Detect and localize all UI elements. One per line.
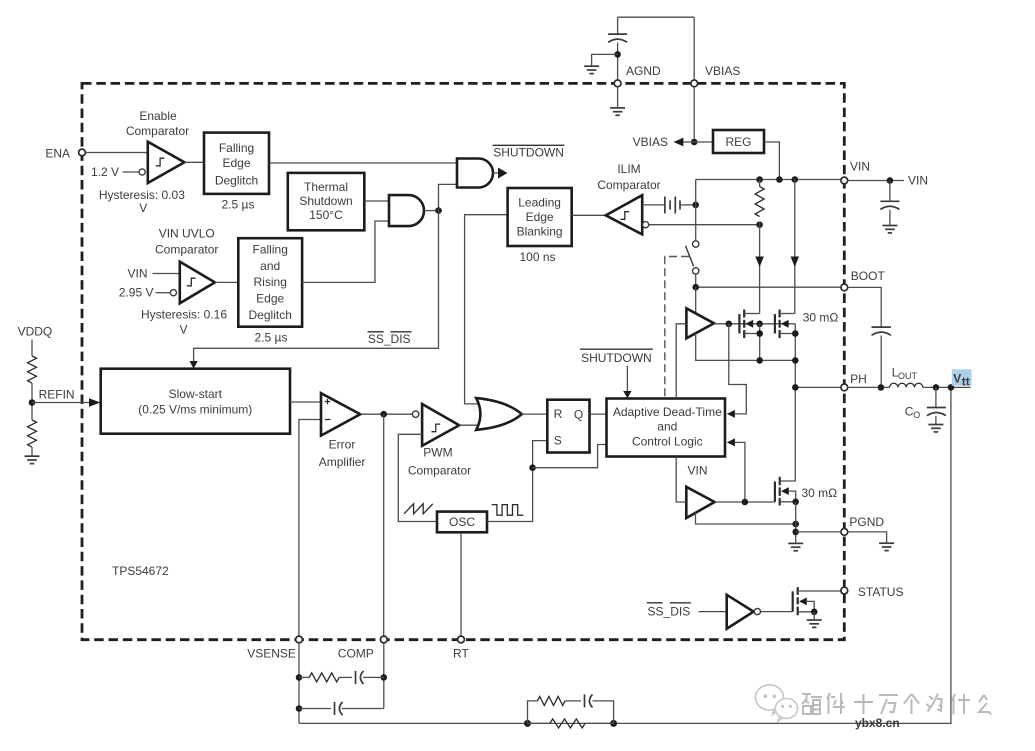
svg-text:Amplifier: Amplifier xyxy=(319,455,366,469)
ground (input cap) xyxy=(882,226,897,233)
high-side gate line xyxy=(714,321,795,328)
PGND wire xyxy=(796,531,841,533)
net label SHUTDOWN (dead-time) xyxy=(580,349,653,365)
error amplifier label xyxy=(319,437,366,468)
svg-text:VIN: VIN xyxy=(127,267,147,281)
net label SS_DIS xyxy=(368,332,412,346)
resistor R1 (VDDQ divider top) xyxy=(28,356,37,383)
gate feedback to dead-time (high) xyxy=(727,324,746,418)
wire PWM ramp input from OSC xyxy=(398,434,437,521)
resistor R2 (VDDQ divider bottom) xyxy=(28,420,37,447)
svg-text:VBIAS: VBIAS xyxy=(705,64,740,78)
sawtooth ramp symbol xyxy=(404,504,433,514)
svg-text:V: V xyxy=(139,201,147,215)
svg-text:OSC: OSC xyxy=(449,515,475,529)
wire LEB to OR gate xyxy=(465,215,508,404)
ground (output cap) xyxy=(928,425,943,432)
ILIM offset source (battery) xyxy=(665,197,680,214)
VSENSE external vertical xyxy=(296,643,303,723)
wire SHUTDOWN into dead-time logic xyxy=(623,366,631,399)
feedback resistor R5 xyxy=(528,719,614,728)
svg-text:Thermal: Thermal xyxy=(304,180,348,194)
svg-text:Blanking: Blanking xyxy=(517,225,563,239)
PWM comparator label xyxy=(408,446,471,478)
current limit sense resistor xyxy=(755,180,764,225)
svg-text:Error: Error xyxy=(329,437,356,451)
net label Vtt (highlighted) xyxy=(952,369,972,388)
chip boundary TPS54672 (dashed) xyxy=(82,83,844,639)
svg-text:SS_DIS: SS_DIS xyxy=(648,604,691,618)
high-side current source branch 2 xyxy=(791,180,800,314)
wire OSC clock output to latch S xyxy=(487,441,547,522)
svg-text:ybx8.cn: ybx8.cn xyxy=(855,716,900,730)
pin AGND xyxy=(614,64,661,87)
ground (bypass cap) xyxy=(584,54,618,73)
feedback bottom rail xyxy=(299,387,951,727)
slow-start block xyxy=(101,369,290,434)
PWM comparator xyxy=(412,404,459,446)
svg-text:COMP: COMP xyxy=(338,647,374,661)
pin STATUS xyxy=(841,585,904,599)
wire U2 output junction xyxy=(424,207,442,214)
svg-text:Hysteresis: 0.16: Hysteresis: 0.16 xyxy=(141,307,227,321)
svg-text:VIN: VIN xyxy=(850,160,870,174)
svg-text:2.95 V: 2.95 V xyxy=(119,286,154,300)
wire driver input from control logic (high) xyxy=(676,324,686,399)
svg-text:Edge: Edge xyxy=(256,292,284,306)
VBIAS output arrow xyxy=(633,135,695,149)
wire EA output node xyxy=(360,411,412,418)
wire ILIM plus input xyxy=(642,204,665,206)
svg-text:Rising: Rising xyxy=(254,275,287,289)
watermark logo xyxy=(756,685,798,721)
svg-text:OUT: OUT xyxy=(898,371,918,381)
status FET Q4 xyxy=(793,587,841,615)
svg-text:VIN: VIN xyxy=(687,463,707,477)
net COMP vertical xyxy=(383,414,385,636)
svg-text:TPS54672: TPS54672 xyxy=(112,564,169,578)
wire driver input from control logic (low) xyxy=(676,457,686,502)
svg-text:(0.25 V/ms minimum): (0.25 V/ms minimum) xyxy=(138,403,252,417)
hysteresis note (enable) xyxy=(99,188,185,215)
wire VSENSE to error amplifier inverting input xyxy=(299,420,321,637)
output capacitor label CO xyxy=(905,404,921,420)
svg-text:Adaptive Dead-Time: Adaptive Dead-Time xyxy=(613,405,722,419)
output inductor LOUT xyxy=(848,383,923,390)
svg-text:R: R xyxy=(554,407,563,421)
svg-text:PH: PH xyxy=(850,372,867,386)
enable comparator xyxy=(148,142,185,183)
OSC block xyxy=(437,512,487,533)
inductor label LOUT xyxy=(892,365,918,381)
wire battery to sense node xyxy=(680,202,699,209)
svg-text:Leading: Leading xyxy=(518,196,561,210)
feedforward resistor R4 xyxy=(537,696,565,705)
SHUTDOWN output arrow xyxy=(493,168,508,179)
svg-text:Q: Q xyxy=(574,408,583,422)
COMP external vertical xyxy=(381,643,388,709)
VIN UVLO comparator label xyxy=(155,227,218,257)
feedforward capacitor C5 xyxy=(565,694,593,707)
svg-text:Deglitch: Deglitch xyxy=(249,308,292,322)
pin VBIAS xyxy=(691,64,741,87)
svg-text:100 ns: 100 ns xyxy=(519,250,555,264)
VIN input xyxy=(127,267,179,281)
svg-text:tt: tt xyxy=(962,374,970,388)
wire SS_DIS to inverter xyxy=(699,611,727,613)
1.2 V reference input xyxy=(91,165,145,179)
ground (low-side source) xyxy=(788,543,803,550)
inverter U3 xyxy=(727,595,761,629)
svg-text:REG: REG xyxy=(725,135,751,149)
svg-text:STATUS: STATUS xyxy=(858,585,904,599)
svg-text:Comparator: Comparator xyxy=(597,178,660,192)
svg-text:SS_DIS: SS_DIS xyxy=(368,332,411,346)
pin VSENSE xyxy=(247,636,302,661)
clock waveform symbol xyxy=(492,505,524,516)
svg-text:30 mΩ: 30 mΩ xyxy=(802,486,838,500)
wire latch Q to dead-time logic xyxy=(590,413,607,415)
svg-text:VBIAS: VBIAS xyxy=(633,135,668,149)
wire ENA to enable comparator xyxy=(85,152,147,154)
wire VDDQ to divider xyxy=(31,340,33,357)
svg-text:Falling: Falling xyxy=(253,243,288,257)
output rail to Vtt xyxy=(923,384,971,391)
svg-text:S: S xyxy=(554,433,562,447)
svg-text:AGND: AGND xyxy=(626,64,661,78)
pin PGND xyxy=(841,515,885,535)
svg-text:BOOT: BOOT xyxy=(851,269,886,283)
falling and rising edge deglitch block xyxy=(238,238,302,327)
svg-text:SHUTDOWN: SHUTDOWN xyxy=(493,145,564,159)
2.95 V reference input xyxy=(119,286,177,300)
high-side source verticals xyxy=(756,324,798,481)
svg-text:ENA: ENA xyxy=(45,147,70,161)
wire divider node xyxy=(29,383,36,420)
leading edge blanking block xyxy=(508,188,572,246)
svg-text:ILIM: ILIM xyxy=(617,162,640,176)
switch control (dashed) xyxy=(665,257,689,399)
ILIM comparator label xyxy=(597,162,660,192)
svg-text:and: and xyxy=(260,259,280,273)
wire comparator to falling edge deglitch xyxy=(184,161,204,163)
AND gate U1 xyxy=(457,159,493,188)
svg-text:VSENSE: VSENSE xyxy=(247,647,296,661)
PH rail wire xyxy=(792,384,841,391)
bypass capacitor top wire xyxy=(618,16,695,18)
feedforward branch stubs xyxy=(528,701,614,724)
wire ILIM comparator to LEB xyxy=(572,214,607,216)
svg-text:Falling: Falling xyxy=(219,141,254,155)
vin uvlo comparator xyxy=(180,262,215,304)
svg-text:V: V xyxy=(953,371,961,385)
thermal shutdown block xyxy=(288,173,365,230)
high-side current source branch 1 xyxy=(755,225,764,314)
wire thermal to AND U2 xyxy=(364,200,389,202)
RS latch xyxy=(547,400,589,453)
svg-text:Control Logic: Control Logic xyxy=(632,435,703,449)
wire VBIAS to REG xyxy=(691,17,713,145)
pin BOOT xyxy=(841,269,886,291)
high-side source rail xyxy=(696,333,799,363)
svg-text:Edge: Edge xyxy=(526,210,554,224)
high-side gate driver xyxy=(686,308,714,338)
pin VIN xyxy=(841,160,870,184)
error amplifier xyxy=(321,393,360,435)
svg-text:Comparator: Comparator xyxy=(408,464,471,478)
BOOT rail wire xyxy=(692,284,840,291)
high-side FET Q1 (30 mOhm) xyxy=(739,310,759,339)
compensation capacitor C3 xyxy=(356,671,384,684)
wire deglitch to AND U1 xyxy=(269,162,457,164)
wire OSC to RT pin xyxy=(460,532,462,636)
boot capacitor xyxy=(848,287,891,387)
output capacitor CO xyxy=(927,387,946,424)
bypass capacitor C1 xyxy=(608,17,627,79)
ground (divider) xyxy=(25,447,40,464)
svg-text:2.5 µs: 2.5 µs xyxy=(255,331,288,345)
gate feedback to dead-time (low) xyxy=(727,438,745,502)
pin ENA xyxy=(45,147,85,161)
svg-text:SHUTDOWN: SHUTDOWN xyxy=(581,351,652,365)
svg-text:Edge: Edge xyxy=(222,156,250,170)
REFIN input xyxy=(32,388,100,407)
pin COMP xyxy=(338,636,387,661)
svg-text:REFIN: REFIN xyxy=(39,388,75,402)
wire BOOT to high-side driver xyxy=(695,287,697,313)
pin PH xyxy=(841,372,867,391)
ilim sense switch xyxy=(686,205,699,287)
OR gate xyxy=(476,398,522,430)
compensation capacitor C4 xyxy=(299,702,384,715)
low-side FET Q3 (30 mOhm) xyxy=(775,477,799,506)
low-side gate driver xyxy=(686,487,714,518)
external VIN wire xyxy=(848,174,928,188)
compensation resistor R3 xyxy=(299,673,352,682)
ground (AGND) xyxy=(610,87,625,115)
ILIM minus input xyxy=(643,221,763,228)
svg-text:Enable: Enable xyxy=(139,109,177,123)
wire clock to dead-time logic xyxy=(533,445,607,468)
svg-text:O: O xyxy=(913,410,920,420)
svg-text:150°C: 150°C xyxy=(309,208,343,222)
wire junction to AND U1 lower input xyxy=(439,184,458,210)
enable comparator label xyxy=(126,109,189,138)
svg-text:Slow-start: Slow-start xyxy=(169,387,223,401)
svg-text:V: V xyxy=(179,322,187,336)
wire inverter to status FET gate xyxy=(761,611,793,613)
low-side gate line xyxy=(715,499,775,506)
wire PWM to OR gate xyxy=(459,424,479,426)
ground (status FET) xyxy=(807,612,822,628)
external PGND ground xyxy=(848,532,894,551)
wire uvlo comparator to deglitch xyxy=(215,281,238,283)
svg-text:30 mΩ: 30 mΩ xyxy=(803,311,839,325)
REG block xyxy=(713,130,764,153)
svg-text:1.2 V: 1.2 V xyxy=(91,165,119,179)
wire deglitch2 to AND U2 xyxy=(302,221,389,282)
hysteresis note (uvlo) xyxy=(141,307,227,336)
svg-text:Comparator: Comparator xyxy=(126,124,189,138)
net label SS_DIS (status) xyxy=(647,603,691,619)
svg-text:2.5 µs: 2.5 µs xyxy=(222,198,255,212)
input capacitor xyxy=(880,181,899,225)
svg-text:PGND: PGND xyxy=(849,515,884,529)
wire REG to VIN rail xyxy=(764,142,779,180)
falling edge deglitch block xyxy=(204,133,269,194)
net SS_DIS wire to slow-start xyxy=(189,211,438,369)
svg-text:and: and xyxy=(657,420,677,434)
low-side source to PGND xyxy=(792,502,799,543)
high-side FET Q2 (30 mOhm) xyxy=(775,310,795,339)
adaptive dead-time and control logic block xyxy=(607,399,726,457)
low-side driver return rail xyxy=(696,513,800,528)
svg-text:VDDQ: VDDQ xyxy=(18,325,53,339)
svg-text:PWM: PWM xyxy=(423,446,452,460)
pin RT xyxy=(453,636,469,661)
svg-text:VIN: VIN xyxy=(908,174,928,188)
watermark chinese text xyxy=(802,693,991,715)
svg-text:VIN UVLO: VIN UVLO xyxy=(159,227,215,241)
AND gate U2 xyxy=(389,195,424,226)
wire OR to latch R xyxy=(522,413,548,415)
wire slow-start to error amplifier xyxy=(290,401,321,403)
svg-text:RT: RT xyxy=(453,647,469,661)
svg-text:Comparator: Comparator xyxy=(155,243,218,257)
svg-text:Deglitch: Deglitch xyxy=(215,174,258,188)
net label SHUTDOWN xyxy=(493,145,565,159)
svg-text:Shutdown: Shutdown xyxy=(299,194,352,208)
VIN rail xyxy=(696,176,841,205)
ILIM comparator xyxy=(606,195,643,234)
